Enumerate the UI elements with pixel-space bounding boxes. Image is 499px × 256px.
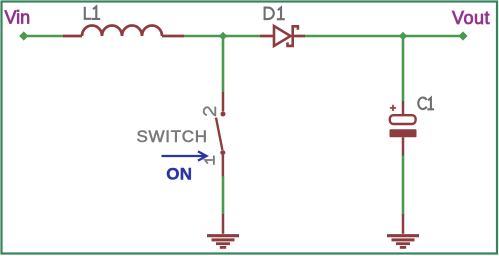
arrow to switch (162, 151, 207, 160)
capacitor C1 pin top (402, 101, 405, 117)
capacitor C1 top plate (390, 115, 416, 124)
node Vout (458, 31, 467, 40)
label ON (166, 165, 192, 184)
net label Vin (5, 8, 31, 28)
label D1 (265, 8, 285, 20)
capacitor C1 plus sign (390, 105, 396, 111)
wire C1 to ground (402, 155, 405, 215)
wire Vin node to L1 (24, 35, 64, 38)
label SWITCH (137, 127, 208, 146)
svg-text:SWITCH: SWITCH (137, 127, 208, 146)
junction A (219, 32, 227, 40)
diode D1 (Schottky) (260, 26, 305, 46)
ground for switch (207, 214, 239, 247)
svg-text:Vout: Vout (452, 8, 490, 28)
node Vin (19, 31, 28, 40)
switch SW1 pin 2 (222, 92, 225, 111)
junction B (399, 32, 407, 40)
inductor L1 (63, 26, 184, 37)
label C1 (418, 98, 434, 110)
switch SW1 contact 2 (221, 112, 226, 117)
switch SW1 lever (216, 118, 222, 150)
wire D1 to Vout node through junction B (305, 35, 464, 38)
wire junction B to C1 (402, 36, 405, 101)
switch SW1 contact 1 (220, 150, 225, 155)
capacitor C1 bottom plate (390, 129, 417, 137)
pin number 1 (205, 156, 214, 165)
pin number 2 (204, 107, 216, 116)
wire junction A to switch pin 2 (222, 36, 225, 93)
switch SW1 pin 1 (222, 155, 225, 176)
wire switch pin 1 to ground (222, 176, 225, 215)
net label Vout (452, 8, 490, 28)
ground for C1 (387, 214, 419, 247)
capacitor C1 pin bottom (402, 137, 405, 155)
svg-text:ON: ON (166, 165, 192, 184)
label L1 (85, 7, 100, 19)
wire L1 to D1 through junction A (184, 35, 261, 38)
svg-text:Vin: Vin (5, 8, 31, 28)
